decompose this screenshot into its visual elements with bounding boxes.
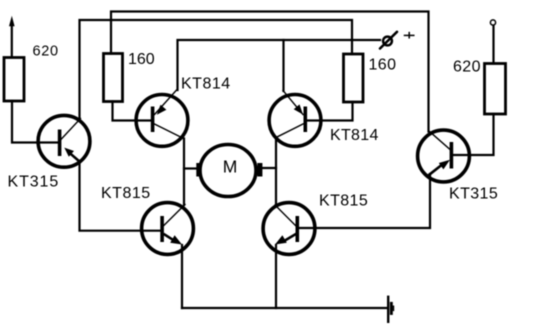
- terminal + (power input): [383, 37, 392, 46]
- svg-text:KT815: KT815: [101, 185, 151, 202]
- ground symbol: [387, 297, 389, 322]
- svg-text:620: 620: [453, 59, 481, 76]
- wire motor right lead: [263, 167, 277, 169]
- transistor Q KT815 (lower right): [263, 203, 315, 255]
- transistor Q KT315 (left): [38, 115, 90, 167]
- wire ground rail: [182, 307, 387, 309]
- svg-text:KT814: KT814: [330, 127, 379, 144]
- wire right 620 top: [492, 26, 494, 64]
- terminal circle (right supply): [490, 20, 495, 25]
- svg-text:KT815: KT815: [319, 193, 368, 210]
- transistor Q KT814 (right): [269, 91, 321, 147]
- wire left 620 bottom to KT315 base: [12, 101, 58, 143]
- wire top rail 2 (left KT315 collector to right 160 top): [80, 20, 353, 120]
- svg-text:620: 620: [33, 44, 59, 60]
- resistor R 160 (left): [104, 54, 123, 102]
- wire right 620 bottom to right KT315 base: [452, 114, 494, 155]
- wire right 160 bottom to right KT814 base: [306, 102, 353, 121]
- svg-text:KT814: KT814: [181, 76, 231, 93]
- wire right KT814 collector to motor and lower KT815 collector: [275, 138, 277, 204]
- resistor R 160 (right): [344, 54, 364, 102]
- wire lower-left KT815 emitter to ground rail: [181, 245, 183, 308]
- wire top rail 1 (left 160 top to right KT315 collector): [111, 12, 429, 132]
- svg-text:160: 160: [128, 51, 155, 68]
- wire left 160 bottom to KT814 base: [113, 102, 153, 121]
- transistor Q KT815 (lower left): [142, 203, 194, 255]
- wire left KT814 collector to motor and lower KT815 collector: [183, 139, 185, 206]
- wire motor left lead: [184, 167, 197, 169]
- transistor Q KT315 (right): [418, 130, 470, 182]
- wire lower-right KT815 emitter to ground rail: [275, 245, 277, 308]
- resistor R 620 (right): [485, 64, 506, 115]
- label + sign: [405, 34, 414, 36]
- transistor Q KT814 (left): [136, 90, 188, 147]
- wire lower-right KT815 base to right KT315 emitter: [299, 174, 430, 228]
- motor M: [196, 145, 262, 197]
- svg-text:KT315: KT315: [449, 186, 498, 203]
- wire left KT315 emitter to lower-left KT815 base: [80, 161, 162, 231]
- terminal arrow (left supply): [11, 22, 13, 57]
- svg-text:KT315: KT315: [8, 174, 60, 191]
- svg-text:M: M: [223, 157, 238, 177]
- svg-text:160: 160: [369, 57, 397, 74]
- wire top rail 3 (KT814 emitters to + terminal): [178, 40, 381, 90]
- wire right KT814 emitter drop: [282, 40, 284, 91]
- resistor R 620 (left): [4, 58, 24, 102]
